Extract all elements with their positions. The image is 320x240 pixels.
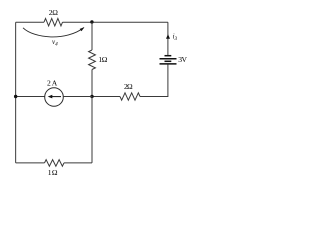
wire: middle-left segment [16,96,45,98]
wire: bottom-left segment [16,162,45,164]
wire: right vertical lower [140,65,168,97]
wire: top-right segment [63,21,168,23]
battery V1 plate 2 long [160,58,177,60]
resistor R2 1Ω (middle vertical) [89,50,96,70]
resistor R3 2Ω (middle horizontal) [120,93,140,100]
svg-text:1 Ω: 1 Ω [48,168,58,177]
current arrow i3 [166,34,170,39]
wire: right vertical upper [167,22,169,55]
wire: middle branch lower lead [91,70,93,97]
resistor R1 2Ω (top) [44,18,63,26]
svg-text:1 Ω: 1 Ω [98,55,107,64]
wire: middle segment between node and R3 [92,96,120,98]
wire: middle branch upper lead [91,22,93,50]
svg-text:2 A: 2 A [47,79,58,88]
current source I1 2A circle [45,88,64,107]
current source I1 arrow (points left) [52,96,62,98]
wire: bottom loop right vertical [91,97,93,163]
battery V1 3V: plate 1 short [165,55,172,57]
battery V1 plate 3 short [165,60,172,62]
wire: left vertical [15,22,17,163]
voltage arc v4 [23,28,84,37]
wire: middle segment circle to node [63,96,92,98]
resistor R4 1Ω (bottom) [45,160,65,167]
arrowhead of v4 arc [80,27,85,31]
wire: bottom-right segment [64,162,92,164]
node junction dot (top middle) [90,20,93,23]
node junction dot (middle center) [90,95,93,98]
wire: top-left segment [16,21,44,23]
battery V1 plate 4 long [160,63,177,65]
svg-text:3 V: 3 V [178,55,187,64]
svg-text:2 Ω: 2 Ω [49,8,59,17]
node junction dot (middle left) [14,95,17,98]
svg-text:2 Ω: 2 Ω [124,82,133,91]
